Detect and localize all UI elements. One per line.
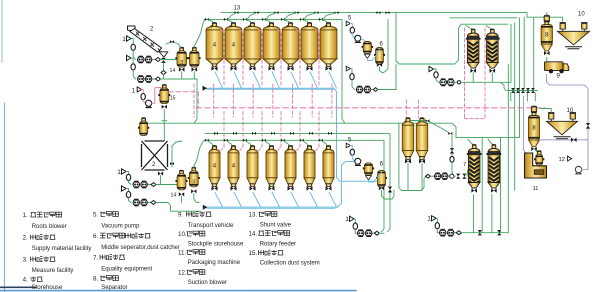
pink drop row1 #6 to trunk xyxy=(292,84,294,117)
blue suction line from row1 silo #4 xyxy=(272,72,280,88)
blue collection header row2 xyxy=(205,207,337,208)
roots blower station 1 (bottom A) xyxy=(345,216,379,237)
pipe 5top b xyxy=(352,33,354,38)
shunt valve 13 on L1 #3 xyxy=(275,11,279,14)
pipe drop into row2 silo #4 xyxy=(264,140,270,147)
svg-text:Rotary feeder: Rotary feeder xyxy=(260,242,296,248)
funnel under hopper xyxy=(159,52,168,57)
svg-text:7: 7 xyxy=(463,162,466,168)
pink drop row1 #3 to trunk xyxy=(232,84,234,117)
svg-text:Roots blower: Roots blower xyxy=(32,224,67,230)
pipe drop into silo #3 cap xyxy=(245,19,251,23)
pink pipe arrow to muffler xyxy=(142,90,144,94)
collection dust box (X) xyxy=(142,141,168,170)
svg-text:13: 13 xyxy=(234,6,241,12)
pink drop to silo x408 xyxy=(405,100,407,118)
pipe mid header right ext xyxy=(342,123,456,137)
svg-text:1: 1 xyxy=(117,169,121,176)
valve on L2b above row2 silo #4 xyxy=(262,139,266,142)
blue pipe pump to separator 6 top xyxy=(361,38,366,43)
feeder row stubs xyxy=(511,93,536,101)
pink vent row2 gap #2 xyxy=(240,112,243,151)
pipe drop to hatch top B xyxy=(486,26,492,30)
svg-text:1: 1 xyxy=(427,216,431,223)
svg-text:4.: 4. xyxy=(23,277,28,284)
roots blower station 1 (bottom B) xyxy=(427,216,461,237)
shunt valve 13 on L1 #7 xyxy=(377,11,381,14)
shunt valve 13 on L1 #5 xyxy=(315,11,319,14)
blue suction line from row1 silo #2 xyxy=(234,72,242,88)
pink pipe pump to filter 15 xyxy=(152,88,162,104)
pipe drop into silo #7 cap xyxy=(321,19,327,23)
pipe drop into row2 silo #2 xyxy=(226,140,232,147)
pipe S-link L1-L2 #5 xyxy=(304,13,317,20)
pink line right pair A xyxy=(464,28,466,119)
svg-text:Shunt valve: Shunt valve xyxy=(260,223,292,229)
transport truck 9 xyxy=(545,62,569,74)
pipe storage10mid feed xyxy=(540,109,551,113)
station B-top xyxy=(429,66,461,86)
valve on L2 above silo #7 xyxy=(319,18,323,21)
pink drop to silo x422 xyxy=(417,100,419,118)
pipe drop into silo #6 cap xyxy=(302,19,308,23)
pink vent line row1 gap #1 xyxy=(221,30,224,87)
storehouse silo 4 (row2 #5) xyxy=(285,145,296,190)
riser x519 xyxy=(519,18,521,138)
pipe into cyclone top xyxy=(546,13,548,16)
blue suction line from row1 silo #1 xyxy=(215,72,223,88)
pink drop row1 #5 to trunk xyxy=(272,84,274,117)
purple pipe truck line xyxy=(547,75,589,121)
pipe cyclone to truck xyxy=(546,58,548,62)
pink vent line row1 gap #2 xyxy=(240,30,243,87)
stockpile storehouse 10 (top) xyxy=(558,23,590,49)
shunt valve 13 on L1 #8 xyxy=(386,11,390,14)
pipe 5top xyxy=(350,24,352,28)
storehouse silo 4 (row1 #1) xyxy=(206,22,223,70)
blue suction from row2 silo #4 xyxy=(272,192,280,207)
page left border (blue) xyxy=(4,103,6,292)
blue link sepA-B mid xyxy=(369,173,382,183)
svg-text:13.: 13. xyxy=(249,212,258,219)
roots blower station 1 (train D) xyxy=(117,169,156,189)
pipe drop into silo #1 cap xyxy=(207,19,213,23)
valve on L1b #2 xyxy=(233,132,237,135)
muffler 5mid xyxy=(350,149,354,155)
blue suction from row2 silo #2 xyxy=(234,192,242,207)
storehouse silo 4 (row2 #2) xyxy=(228,145,239,190)
pink vent line row1 gap #5 xyxy=(297,30,300,87)
valve on header B 1 xyxy=(478,230,482,235)
storehouse silo 4 (row2 #4) xyxy=(266,145,277,190)
valve on L2 above silo #3 xyxy=(243,18,247,21)
svg-text:15.: 15. xyxy=(249,250,258,257)
pipe vessel14 cap to manifold xyxy=(194,19,205,47)
pipe aux bottom header xyxy=(399,123,426,190)
blue suction line from row1 silo #6 xyxy=(310,72,318,88)
pipe mid manifold y137 xyxy=(456,136,520,138)
equality vessel 7 (mid A) xyxy=(467,144,482,192)
roots blower station 1 (train F) xyxy=(346,66,378,93)
pink vent row2 gap #4 xyxy=(278,112,281,151)
pink dashed from filter 15 xyxy=(169,92,199,108)
svg-text:6.: 6. xyxy=(93,233,98,240)
svg-text:11.: 11. xyxy=(178,250,186,257)
shunt valve 13 on L1 #6 xyxy=(335,11,339,14)
label 12 xyxy=(559,156,572,163)
rotary feeder under vessel 3 mid xyxy=(191,189,199,202)
svg-text:Supply material facility: Supply material facility xyxy=(32,246,92,252)
svg-text:Storehouse: Storehouse xyxy=(32,285,63,291)
pipe drop into silo #4 cap xyxy=(264,19,270,23)
blue suction from row2 silo #7 xyxy=(329,192,337,207)
metering vessel 3 (mid) xyxy=(188,167,200,187)
shunt valve 13 on L1 #2 xyxy=(255,11,259,14)
suction blower 12 xyxy=(575,166,581,174)
svg-text:Middle seperator,dust catcher: Middle seperator,dust catcher xyxy=(101,245,180,251)
rotary feeder under vessel 3 xyxy=(179,67,185,79)
pipe drop into silo #2 cap xyxy=(226,19,232,23)
pipe cyclone mid to packer jar xyxy=(535,149,539,154)
storehouse silo 4 (row2 #1) xyxy=(209,145,220,190)
pipe drop to hatch mid B xyxy=(488,139,493,145)
pipe funnel to metering line xyxy=(163,63,165,71)
valve on L2b above row2 silo #3 xyxy=(243,139,247,142)
valve on L2 above silo #4 xyxy=(262,18,266,21)
pipe aux cap header xyxy=(411,121,449,133)
svg-text:Stockpile storehouse: Stockpile storehouse xyxy=(188,242,244,248)
pipe S-link L1-L2 #2 xyxy=(247,13,257,20)
svg-text:2.: 2. xyxy=(23,235,28,242)
rotary feeder under vessel 14 xyxy=(192,67,198,79)
storehouse silo (aux A) xyxy=(402,118,413,164)
pink vent row2 gap #5 xyxy=(297,112,300,151)
valve on L2 above silo #5 xyxy=(281,18,285,21)
diamond valve under funnel xyxy=(161,71,166,75)
roots blower station 1 (train E) xyxy=(122,186,157,206)
blue suction line from row1 silo #5 xyxy=(291,72,299,88)
svg-text:Separator: Separator xyxy=(101,285,127,291)
valve on L2b above row2 silo #5 xyxy=(281,139,285,142)
svg-text:7.: 7. xyxy=(93,255,98,262)
roots blower station 1 (train B) xyxy=(127,55,161,82)
storehouse silo 4 (row2 #3) xyxy=(247,145,258,190)
pipe: riser x342 down to mid band xyxy=(342,19,345,123)
pink trunk header xyxy=(196,107,545,109)
svg-text:3: 3 xyxy=(180,60,183,66)
equality vessel 7 (top B) xyxy=(485,29,500,73)
pipe hatch topB feeder down xyxy=(491,73,493,83)
svg-text:1.: 1. xyxy=(23,212,28,219)
vacuum pump 5 (top) xyxy=(355,35,361,42)
blue downpipe x336 to separator 6 xyxy=(334,88,378,181)
pipe X-box up valve xyxy=(170,141,182,167)
valve on L2b above row2 silo #1 xyxy=(205,139,209,142)
pipe mid header y123 xyxy=(148,122,343,124)
riser x396 lower xyxy=(395,64,397,90)
riser x500 xyxy=(500,137,502,232)
riser x492 to feeder xyxy=(491,195,493,233)
pipe drop to hatch mid A xyxy=(468,139,473,145)
blue suction line from row1 silo #7 xyxy=(329,72,337,88)
svg-text:14.: 14. xyxy=(249,231,258,238)
valve mark on vessel feed xyxy=(170,40,174,43)
valve into drop x452 xyxy=(448,132,452,135)
metering vessel 3 xyxy=(175,47,188,67)
pipe manifold to storage 10 xyxy=(561,17,563,22)
blue row2 riser to vacuum station xyxy=(337,162,357,208)
blue suction from row2 silo #3 xyxy=(253,192,261,207)
pink drop row1 #8 to trunk xyxy=(331,84,333,117)
storehouse silo (aux B) xyxy=(416,118,427,164)
vacuum pump inlet arrow xyxy=(132,87,142,94)
pipe station A risers xyxy=(380,232,385,234)
separator cyclone 8 (top) xyxy=(541,15,552,55)
arrow on row2 header xyxy=(203,205,208,210)
svg-text:9.: 9. xyxy=(178,212,183,219)
blue link sepA to sepB xyxy=(367,50,379,61)
svg-text:10: 10 xyxy=(578,12,585,18)
riser x473 to feeder xyxy=(472,195,474,233)
svg-text:Packaging machine: Packaging machine xyxy=(188,260,241,266)
pink drop row1 #7 to trunk xyxy=(311,84,313,117)
legend (items 1-15) xyxy=(23,212,320,291)
blue suction from row2 silo #1 xyxy=(215,192,223,207)
pipe S-link L1-L2 #6 xyxy=(323,13,337,20)
pipe drop into row2 silo #5 xyxy=(283,140,289,147)
vacuum pump (item 1 aux) xyxy=(146,100,152,108)
pipe drop into row2 silo #3 xyxy=(245,140,251,147)
storehouse silo 4 (row1 #2) xyxy=(225,22,242,70)
pipe drop into row2 silo #7 xyxy=(321,140,327,147)
purple header mid xyxy=(540,139,588,141)
metering vessel 14 xyxy=(188,47,201,67)
pipe vessels to manifold riser xyxy=(166,42,181,48)
pipe filter 15 down xyxy=(163,109,165,141)
valve on L1b #5 xyxy=(290,132,294,135)
packer feed jar xyxy=(534,151,544,165)
arrow on row1 header xyxy=(203,86,208,91)
metering vessel 14 (mid) xyxy=(176,170,188,190)
pipe hatch manifold y18 xyxy=(450,17,517,19)
storehouse silo 4 (row1 #4) xyxy=(263,22,280,70)
riser x533 xyxy=(533,17,535,88)
feeder under separator B mid xyxy=(379,186,394,199)
feeder under separator B xyxy=(377,19,388,73)
pipe drop into row2 silo #1 xyxy=(207,140,213,147)
pipe train F to riser xyxy=(378,89,396,91)
pipe: top manifold L2 to silo row 1 xyxy=(205,18,343,20)
svg-text:3.: 3. xyxy=(23,257,28,264)
rotary valve under funnel xyxy=(161,58,166,63)
pink vent row2 gap #6 xyxy=(316,112,319,151)
pipe 5mid b xyxy=(352,155,354,161)
blue suction line from row1 silo #3 xyxy=(253,72,261,88)
bowtie on riser x390 xyxy=(388,187,392,193)
blue suction from row2 silo #5 xyxy=(291,192,299,207)
valve on L2 above silo #6 xyxy=(300,18,304,21)
svg-text:Equality equipment: Equality equipment xyxy=(101,267,152,273)
pipe S-link L1-L2 #3 xyxy=(266,13,277,20)
pipe vessel3b cap up xyxy=(193,140,204,167)
pink drop row1 #1 to trunk xyxy=(193,84,195,117)
valve on L2 above silo #1 xyxy=(205,18,209,21)
blue suction from row2 silo #6 xyxy=(310,192,318,207)
inlet triangle (5 top) xyxy=(346,21,350,26)
middle separator 6 (mid) B xyxy=(376,171,387,188)
pipe row2 manifold L1b xyxy=(205,133,390,231)
conveying line y176 xyxy=(426,170,468,180)
storehouse silo 4 (row1 #6) xyxy=(301,22,318,70)
rotary valve under X-box xyxy=(158,171,163,184)
rotary feeder under vessel 14 mid xyxy=(179,192,184,202)
scan edge artifact xyxy=(1,0,3,62)
storehouse silo 4 (row1 #5) xyxy=(282,22,299,70)
svg-text:1: 1 xyxy=(122,36,126,43)
pipe train B header xyxy=(161,79,198,123)
svg-text:11: 11 xyxy=(533,186,539,192)
pipe: top shunt manifold L1 xyxy=(221,13,561,18)
pink vent row2 gap #3 xyxy=(259,112,262,151)
pipe stationBtop header xyxy=(461,24,511,82)
pipe train D to vessels xyxy=(156,184,177,186)
shunt valve 13 on L1 #4 xyxy=(295,11,299,14)
riser x514 xyxy=(514,23,516,190)
valve on L1b #7 xyxy=(328,132,332,135)
pipe drop into silo #5 cap xyxy=(283,19,289,23)
pink pipe muffler to pump xyxy=(143,100,145,104)
middle separator 6 (mid) A xyxy=(363,163,374,175)
feeder row inlet bend xyxy=(500,82,506,90)
svg-text:1: 1 xyxy=(345,216,349,223)
valve on purple header xyxy=(571,138,577,142)
pipe hatch topA feeder down xyxy=(472,73,474,83)
pink vent row2 gap #1 xyxy=(221,112,224,151)
funnel under separator A xyxy=(364,54,370,58)
dust filter vessel 15 xyxy=(158,84,170,103)
roots blower station 1 (train A) xyxy=(122,36,160,64)
svg-text:Transport vehicle: Transport vehicle xyxy=(188,223,234,229)
pipe train A to vessel 3 xyxy=(161,59,177,61)
pipe S-link L1-L2 #4 xyxy=(285,13,297,20)
storehouse silo 4 (row1 #3) xyxy=(244,22,261,70)
pipe aux silo stems xyxy=(408,164,422,191)
valve on L2b above row2 silo #6 xyxy=(300,139,304,142)
pipe S-link L1-L2 #1 xyxy=(228,13,237,20)
junction tick xyxy=(162,120,168,122)
svg-text:10.: 10. xyxy=(178,231,187,238)
feeder row y90 xyxy=(507,88,538,93)
svg-text:Suction blower: Suction blower xyxy=(188,280,227,286)
stockpile storehouse 10 (mid) xyxy=(547,113,578,139)
vacuum pump 5 (mid) xyxy=(355,158,361,165)
valve on L1b #1 xyxy=(214,132,218,135)
pink line right pair B xyxy=(484,28,486,119)
equality vessel 7 (mid B) xyxy=(487,144,502,192)
purple pipe left of cyclone xyxy=(524,96,531,153)
filter box vessel xyxy=(138,118,149,136)
middle separator 6 (top) A xyxy=(362,42,373,54)
separator cyclone 8 (mid) xyxy=(529,106,540,151)
muffler 5top xyxy=(350,27,354,33)
riser x524 xyxy=(523,17,525,88)
pipe train E out xyxy=(156,203,201,212)
page bottom border (blue) xyxy=(0,290,356,292)
svg-text:3: 3 xyxy=(192,180,195,186)
svg-text:Vacuum pump: Vacuum pump xyxy=(101,224,140,230)
pipe hatch manifold y24 xyxy=(461,23,508,25)
pipe L-loop x396 xyxy=(396,13,461,64)
pipe drop to hatch top A xyxy=(466,26,472,30)
valve on L2b above row2 silo #2 xyxy=(224,139,228,142)
pipe station B header xyxy=(462,65,509,233)
pipe row2 manifold L2b xyxy=(205,140,385,231)
middle separator 6 (top) B xyxy=(374,48,385,65)
pink vent line row1 gap #6 xyxy=(316,30,319,87)
valve on purple riser xyxy=(586,123,590,129)
pipe 5mid xyxy=(350,146,352,150)
pink vent line row1 gap #4 xyxy=(278,30,281,87)
svg-text:5.: 5. xyxy=(93,212,98,219)
valve on L1b #6 xyxy=(309,132,313,135)
muffler on vacuum line xyxy=(141,94,145,100)
svg-text:Measure facility: Measure facility xyxy=(32,268,74,274)
bottom-left dark rule xyxy=(0,286,36,288)
pink drop row1 #2 to trunk xyxy=(213,84,215,117)
valve on header B 2 xyxy=(497,230,501,235)
valve on L1b #4 xyxy=(271,132,275,135)
shunt valve 13 on L1 #1 xyxy=(235,11,239,14)
valve on L2 above silo #2 xyxy=(224,18,228,21)
inlet triangle (5 mid) xyxy=(346,143,350,148)
riser x482 xyxy=(481,137,483,232)
purple riser right xyxy=(587,121,589,170)
rotary feeder under filter 15 xyxy=(162,105,167,109)
purple link pump xyxy=(582,169,588,171)
storehouse silo 4 (row2 #7) xyxy=(323,145,334,190)
pink vent line row1 gap #3 xyxy=(259,30,262,87)
funnel under separator A mid xyxy=(366,176,372,180)
svg-text:12.: 12. xyxy=(178,270,187,277)
svg-text:15: 15 xyxy=(170,96,176,102)
pink link right pair xyxy=(465,118,486,120)
svg-text:14: 14 xyxy=(170,68,176,74)
svg-text:12: 12 xyxy=(559,157,565,163)
storehouse silo 4 (row1 #7) xyxy=(320,22,337,70)
storehouse silo 4 (row2 #6) xyxy=(304,145,315,190)
drop x452 with feeder+muffler xyxy=(450,136,454,176)
packaging machine 11 xyxy=(525,153,547,178)
valve on L2b above row2 silo #7 xyxy=(319,139,323,142)
pipe drop into row2 silo #6 xyxy=(302,140,308,147)
valve on L1b #3 xyxy=(252,132,256,135)
svg-text:Collection dust system: Collection dust system xyxy=(260,261,320,267)
pipe diamond to vessel line xyxy=(163,75,165,79)
supply hopper with screw conveyor (2) xyxy=(128,26,162,52)
equality vessel 7 (top A) xyxy=(466,29,481,73)
blue collection header row1 xyxy=(205,88,334,89)
pink drop row1 #4 to trunk xyxy=(252,84,254,117)
svg-text:8.: 8. xyxy=(93,276,98,283)
valve on aux cap header xyxy=(426,119,430,122)
svg-text:14: 14 xyxy=(171,193,177,199)
